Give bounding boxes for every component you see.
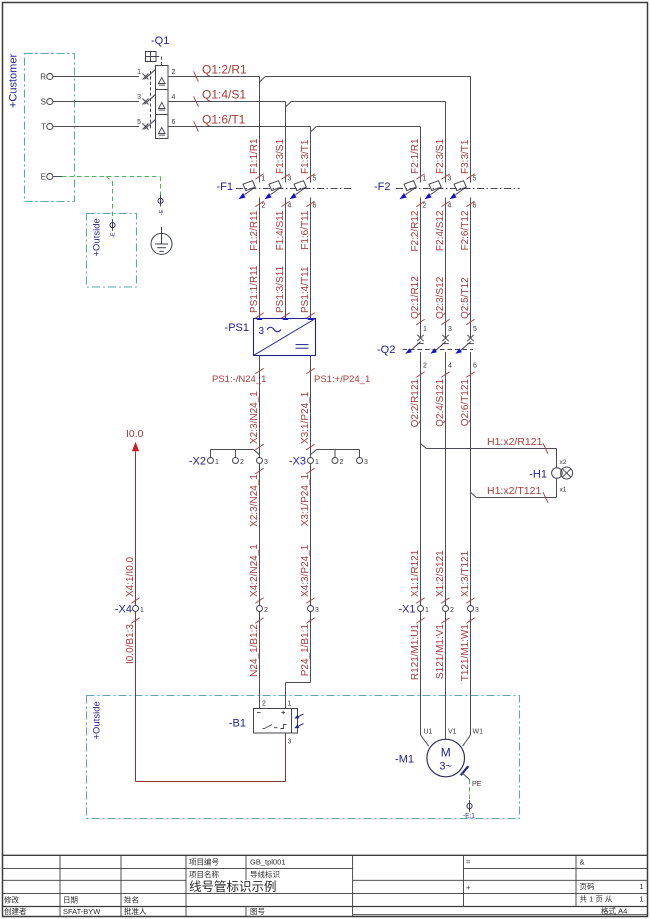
svg-text:X1:1/R121: X1:1/R121 <box>410 549 421 597</box>
svg-text:导线标识: 导线标识 <box>250 869 280 879</box>
wire Q1:4/S1 horizontal <box>168 101 286 103</box>
svg-text:x2: x2 <box>560 459 567 466</box>
svg-text:创建者: 创建者 <box>4 906 27 916</box>
wire tap T121 to lamp H1 <box>471 492 477 497</box>
wire PE branch to outside box <box>106 177 113 182</box>
svg-text:S: S <box>41 98 46 107</box>
svg-text:6: 6 <box>313 203 317 210</box>
wire S to Q1:3 <box>53 101 139 103</box>
svg-text:3: 3 <box>448 176 452 183</box>
svg-text:F3:3/T1: F3:3/T1 <box>460 139 471 174</box>
svg-text:2: 2 <box>172 69 176 76</box>
svg-text:3: 3 <box>448 326 452 333</box>
label tick <box>441 319 449 325</box>
svg-text:X1:3/T121: X1:3/T121 <box>460 550 471 597</box>
svg-text:1: 1 <box>288 701 292 708</box>
label tick <box>306 313 314 319</box>
svg-text:1: 1 <box>423 176 427 183</box>
svg-text:页码: 页码 <box>580 882 595 891</box>
svg-text:I0.0/B1:3: I0.0/B1:3 <box>125 624 136 664</box>
PE terminal -E:1 <box>467 803 472 808</box>
svg-text:6: 6 <box>473 203 477 210</box>
signal arrow I0.0 <box>132 442 139 451</box>
svg-text:6: 6 <box>473 363 477 370</box>
PS1 input pin ticks <box>257 318 262 320</box>
wire F2:4 to Q2:3 <box>445 198 447 339</box>
svg-text:Q1:2/R1: Q1:2/R1 <box>202 63 247 77</box>
terminal X4:3 <box>308 606 314 612</box>
wire R to Q1:1 <box>53 76 139 78</box>
wire S1 drop to F1:3 <box>285 102 287 183</box>
svg-text:F1:4/S11: F1:4/S11 <box>275 210 286 250</box>
svg-text:-E:1: -E:1 <box>463 813 475 820</box>
svg-text:S121/M1:V1: S121/M1:V1 <box>435 624 446 679</box>
svg-text:+: + <box>466 883 471 892</box>
label tick <box>255 313 263 319</box>
wire X3:1 to X4:3 <box>310 464 312 606</box>
wire F1:6 to PS1:4 <box>310 198 312 319</box>
svg-text:线号管标识示例: 线号管标识示例 <box>189 879 277 894</box>
terminal X4:1 <box>133 606 139 612</box>
svg-text:PS1:+/P24_1: PS1:+/P24_1 <box>314 374 370 385</box>
label tick <box>255 174 263 180</box>
svg-text:Q2:1/R12: Q2:1/R12 <box>410 276 421 319</box>
svg-text:R121/M1:U1: R121/M1:U1 <box>410 624 421 681</box>
svg-text:-X1: -X1 <box>398 604 415 616</box>
svg-text:4: 4 <box>172 94 176 101</box>
svg-text:3: 3 <box>364 459 368 466</box>
svg-text:项目名称: 项目名称 <box>189 869 219 879</box>
svg-text:P24_1/B1:1: P24_1/B1:1 <box>300 624 311 677</box>
label tick <box>306 174 314 180</box>
lamp H1 symbol <box>552 468 563 479</box>
svg-text:-Q2: -Q2 <box>377 344 395 356</box>
svg-text:5: 5 <box>473 326 477 333</box>
svg-text:F1:3/T1: F1:3/T1 <box>300 139 311 174</box>
Q2 linkage dashed <box>403 349 474 351</box>
F2 mechanical linkage dash-dot <box>396 188 520 190</box>
earth ground symbol <box>151 233 172 254</box>
svg-text:3: 3 <box>137 94 141 101</box>
svg-text:-M1: -M1 <box>395 754 414 766</box>
svg-text:PS1:-/N24_1: PS1:-/N24_1 <box>212 374 266 385</box>
terminal X2:2 <box>233 458 239 464</box>
svg-text:X4:1/I0.0: X4:1/I0.0 <box>125 557 136 597</box>
svg-text:T121/M1:W1: T121/M1:W1 <box>460 624 471 682</box>
wire T1 drop to F2:1 <box>420 127 422 183</box>
svg-text:日期: 日期 <box>63 896 78 905</box>
svg-text:3~: 3~ <box>439 761 452 773</box>
wire I0.0 X4:1 to B1:3 <box>135 612 137 782</box>
svg-text:格式 A4: 格式 A4 <box>601 906 627 916</box>
wire R1 drop to F1:1 <box>259 77 261 183</box>
svg-text:6: 6 <box>172 119 176 126</box>
F1 mechanical linkage dash-dot <box>236 188 352 190</box>
svg-text:Q2:6/T121: Q2:6/T121 <box>460 379 471 427</box>
svg-text:F2:1/R1: F2:1/R1 <box>410 138 421 174</box>
svg-text:PE: PE <box>472 781 482 788</box>
svg-text:4: 4 <box>448 363 452 370</box>
X3 jumper rail <box>311 450 317 455</box>
PE terminal -E (in outside box) <box>110 223 115 228</box>
svg-text:3: 3 <box>288 176 292 183</box>
wire tap R121 to lamp H1 <box>421 444 427 449</box>
svg-text:1: 1 <box>215 459 219 466</box>
wire W1 X1:3 to motor <box>470 612 472 736</box>
svg-text:&: & <box>580 858 585 867</box>
svg-text:-Q1: -Q1 <box>151 35 169 47</box>
svg-text:-X3: -X3 <box>289 456 306 468</box>
B1 actuation arrows <box>296 714 304 718</box>
terminal X1:3 <box>468 606 474 612</box>
svg-text:图号: 图号 <box>250 907 265 916</box>
svg-text:2: 2 <box>340 459 344 466</box>
svg-text:Q1:4/S1: Q1:4/S1 <box>202 88 246 102</box>
svg-text:-B1: -B1 <box>229 718 246 730</box>
terminal X4:2 <box>257 606 263 612</box>
svg-text:Q2:5/T12: Q2:5/T12 <box>460 277 471 319</box>
X2 jumper rail <box>210 450 212 458</box>
svg-text:3: 3 <box>475 607 479 614</box>
svg-text:F1:6/T11: F1:6/T11 <box>300 210 311 250</box>
terminal X1:2 <box>443 606 449 612</box>
label tick <box>466 174 474 180</box>
terminal X2:3 <box>257 458 263 464</box>
title block table lines <box>3 854 648 856</box>
wire PS1:- output N24_1 <box>259 356 261 458</box>
Q1 operator linkage (dashed) <box>156 56 162 58</box>
wire R1 drop to F2:5 <box>470 77 472 183</box>
svg-text:4: 4 <box>448 203 452 210</box>
Q1 pole linkage (dashed) <box>150 71 152 130</box>
label tick <box>281 174 289 180</box>
Q1 release triangle pole 5 <box>159 128 165 134</box>
svg-text:2: 2 <box>240 459 244 466</box>
label tick <box>281 313 289 319</box>
svg-text:H1:x2/R121: H1:x2/R121 <box>487 436 543 448</box>
wire lamp H1 bottom lead <box>556 479 558 498</box>
svg-text:X3:1/P24_1: X3:1/P24_1 <box>300 474 311 527</box>
svg-text:I0.0: I0.0 <box>126 428 144 440</box>
power supply PS1 box <box>254 319 316 356</box>
B1 polarity marks <box>257 712 261 714</box>
wire T1 drop to F1:5 <box>310 127 312 183</box>
motor PE connection slash <box>461 766 469 775</box>
wire F2:6 to Q2:5 <box>470 198 472 339</box>
svg-text:姓名: 姓名 <box>124 895 139 905</box>
svg-text:2: 2 <box>450 607 454 614</box>
svg-text:F1:3/S1: F1:3/S1 <box>275 139 286 174</box>
svg-text:-PS1: -PS1 <box>225 322 249 334</box>
B1 contact symbol <box>265 725 273 729</box>
Q1 release triangle pole 3 <box>159 103 165 109</box>
wire P24_1 X4:3 to B1:1 <box>310 612 312 683</box>
svg-text:5: 5 <box>473 176 477 183</box>
Q1 motor operator square <box>146 52 157 62</box>
svg-text:3: 3 <box>264 459 268 466</box>
terminal X2:1 <box>208 458 214 464</box>
svg-text:共 1 页 从: 共 1 页 从 <box>580 895 613 904</box>
svg-text:PS1:3/S11: PS1:3/S11 <box>275 265 286 313</box>
svg-text:2: 2 <box>423 363 427 370</box>
svg-text:Q1:6/T1: Q1:6/T1 <box>202 113 246 127</box>
label tick <box>466 319 474 325</box>
svg-text:=: = <box>466 858 471 867</box>
svg-text:-E: -E <box>159 209 165 215</box>
structure box +Outside (bottom) <box>87 696 520 819</box>
svg-text:R: R <box>40 73 46 82</box>
svg-text:X3:1/P24_1: X3:1/P24_1 <box>300 391 311 444</box>
svg-text:F1:2/R11: F1:2/R11 <box>249 210 260 251</box>
wire X2:3 to X4:2 <box>259 464 261 606</box>
svg-text:2: 2 <box>262 203 266 210</box>
structure box +Customer <box>25 54 75 202</box>
svg-text:M: M <box>441 746 451 760</box>
svg-text:1: 1 <box>423 326 427 333</box>
terminal X3:1 <box>308 458 314 464</box>
wire I0.0 down to X4:1 <box>135 451 137 605</box>
wire Q1:2/R1 horizontal <box>168 76 260 78</box>
sensor B1 box <box>254 709 298 734</box>
wire U1 X1:1 to motor <box>420 612 422 736</box>
wire S1 drop to F2:3 <box>445 102 447 183</box>
svg-text:1: 1 <box>137 69 141 76</box>
svg-text:x1: x1 <box>560 487 567 494</box>
svg-text:F2:6/T12: F2:6/T12 <box>460 210 471 250</box>
svg-text:1: 1 <box>262 176 266 183</box>
svg-text:3: 3 <box>315 607 319 614</box>
label tick <box>441 174 449 180</box>
svg-text:1: 1 <box>425 607 429 614</box>
svg-text:Q2:4/S121: Q2:4/S121 <box>435 379 446 427</box>
svg-text:X2:3/N24_1: X2:3/N24_1 <box>249 391 260 444</box>
wire PS1:+ output P24_1 <box>310 356 312 458</box>
svg-text:F2:2/R12: F2:2/R12 <box>410 210 421 252</box>
wire PE green horizontal <box>62 176 161 178</box>
label tick <box>416 174 424 180</box>
svg-text:GB_tpl001: GB_tpl001 <box>250 858 285 867</box>
svg-text:4: 4 <box>288 203 292 210</box>
svg-text:Q2:2/R121: Q2:2/R121 <box>410 379 421 428</box>
structure box +Outside (top-left) <box>87 214 137 288</box>
motor M1 circle <box>427 739 465 777</box>
wire Q2:6 to X1:3 (T121) <box>470 352 472 606</box>
svg-text:Q2:3/S12: Q2:3/S12 <box>435 276 446 319</box>
wire Q2:2 to X1:1 (R121) <box>420 352 422 606</box>
svg-text:1: 1 <box>140 607 144 614</box>
wire F1:2 to PS1:1 <box>259 198 261 319</box>
svg-text:F2:3/S1: F2:3/S1 <box>435 139 446 174</box>
svg-text:H1:x2/T121: H1:x2/T121 <box>487 485 541 497</box>
svg-text:-E: -E <box>111 232 117 238</box>
svg-text:-H1: -H1 <box>529 469 547 481</box>
Q1 release triangle pole 1 <box>159 78 165 84</box>
svg-text:1: 1 <box>639 895 643 904</box>
svg-text:W1: W1 <box>473 729 484 736</box>
svg-text:F2:4/S12: F2:4/S12 <box>435 210 446 251</box>
svg-text:U1: U1 <box>424 729 433 736</box>
wire V1 X1:2 to motor <box>445 612 447 740</box>
svg-text:项目编号: 项目编号 <box>189 857 219 867</box>
svg-text:批准人: 批准人 <box>124 906 147 916</box>
svg-text:修改: 修改 <box>4 895 19 905</box>
svg-text:5: 5 <box>137 119 141 126</box>
svg-text:2: 2 <box>423 203 427 210</box>
svg-text:X4:3/P24_1: X4:3/P24_1 <box>300 544 311 597</box>
svg-text:PS1:1/R11: PS1:1/R11 <box>249 265 260 313</box>
Q1 body box <box>156 66 169 139</box>
wire N24_1 X4:2 to B1:2 <box>259 612 261 709</box>
svg-text:+Customer: +Customer <box>8 54 20 108</box>
wire F2:2 to Q2:1 <box>420 198 422 339</box>
terminal X3:2 <box>332 458 338 464</box>
svg-text:X4:2/N24_1: X4:2/N24_1 <box>249 544 260 597</box>
wire PE drop to -E terminal <box>160 177 162 198</box>
svg-text:5: 5 <box>313 176 317 183</box>
svg-text:N24_1/B1:2: N24_1/B1:2 <box>249 624 260 677</box>
svg-text:E: E <box>41 173 46 182</box>
svg-text:F1:1/R1: F1:1/R1 <box>249 138 260 174</box>
wire lamp H1 top lead <box>556 449 558 468</box>
svg-text:3: 3 <box>259 326 265 337</box>
wire T to Q1:5 <box>53 126 139 128</box>
svg-text:1: 1 <box>639 882 643 891</box>
svg-text:+Outside: +Outside <box>92 218 103 256</box>
wire F1:4 to PS1:3 <box>285 198 287 319</box>
svg-text:1: 1 <box>315 459 319 466</box>
svg-text:-X2: -X2 <box>189 456 206 468</box>
svg-text:2: 2 <box>262 701 266 708</box>
PS1 "=" DC side <box>296 344 309 346</box>
svg-text:-F2: -F2 <box>374 181 391 193</box>
terminal X3:3 <box>357 458 363 464</box>
svg-text:X2:3/N24_1: X2:3/N24_1 <box>249 474 260 527</box>
PE terminal -E (right) <box>158 198 163 203</box>
svg-text:-X4: -X4 <box>115 604 132 616</box>
svg-text:2: 2 <box>264 607 268 614</box>
svg-text:SFAT-BYW: SFAT-BYW <box>63 907 101 916</box>
label tick <box>416 319 424 325</box>
svg-text:PS1:4/T11: PS1:4/T11 <box>300 266 311 313</box>
wire PE from motor <box>462 773 470 780</box>
svg-text:-F1: -F1 <box>217 181 234 193</box>
wire E stub <box>53 176 62 178</box>
svg-text:V1: V1 <box>448 729 457 736</box>
terminal X1:1 <box>418 606 424 612</box>
wire Q1:6/T1 horizontal <box>168 126 311 128</box>
svg-text:3: 3 <box>288 739 292 746</box>
svg-text:X1:2/S121: X1:2/S121 <box>435 550 446 597</box>
wire Q2:4 to X1:2 (S121) <box>445 352 447 606</box>
svg-text:+Outside: +Outside <box>92 701 103 739</box>
svg-text:T: T <box>41 123 46 132</box>
